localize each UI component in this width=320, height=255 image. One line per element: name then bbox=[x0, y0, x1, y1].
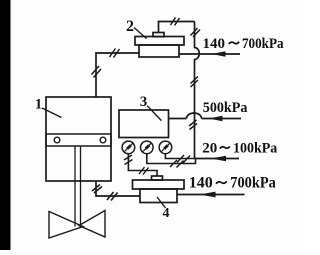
pneumatic hash on G3 line bbox=[177, 155, 190, 163]
wire: right vertical signal line with hop over supply bbox=[195, 22, 200, 159]
label 3 bbox=[140, 94, 162, 121]
label 1 bbox=[35, 97, 62, 118]
wire: gauge G2 line bbox=[147, 154, 196, 164]
svg-text:140: 140 bbox=[189, 175, 213, 192]
transducer 2 bbox=[135, 33, 184, 58]
wire: transducer 2 nozzle output bbox=[159, 22, 195, 33]
svg-text:700kPa: 700kPa bbox=[230, 175, 275, 192]
label 2 bbox=[126, 18, 147, 39]
svg-text:2: 2 bbox=[126, 18, 134, 35]
svg-text:3: 3 bbox=[140, 94, 148, 110]
pneumatic hash on vertical drop bbox=[92, 185, 102, 194]
label 4 bbox=[157, 197, 170, 221]
actuator 1 flange band bbox=[46, 134, 111, 146]
svg-text:140: 140 bbox=[203, 36, 226, 52]
svg-text:1: 1 bbox=[35, 97, 42, 113]
pneumatic hash on bottom horizontal bbox=[107, 192, 118, 201]
flange bolt right bbox=[100, 137, 106, 143]
pneumatic hash on nozzle wire bbox=[171, 18, 180, 26]
label 140~700kPa bottom bbox=[189, 175, 276, 192]
wire: 20~100kPa signal bbox=[196, 158, 240, 160]
valve body bowtie bbox=[49, 211, 105, 239]
label 140~700kPa top bbox=[203, 36, 284, 52]
arrowhead bottom supply bbox=[200, 192, 216, 198]
pneumatic hash on G1 stem bbox=[124, 155, 133, 165]
svg-text:20: 20 bbox=[202, 141, 217, 157]
arrowhead 500kPa bbox=[209, 116, 223, 121]
controller 3 bbox=[119, 110, 169, 138]
pneumatic hash on G1 horizontal bbox=[139, 167, 149, 175]
pneumatic hash on vertical line top bbox=[191, 28, 201, 37]
pressure gauge G2 bbox=[141, 141, 154, 154]
pressure gauge G3 bbox=[159, 141, 172, 154]
pneumatic hash on vertical wire near actuator bbox=[92, 66, 102, 78]
wire: gauge G1 to positioner 4 input bbox=[128, 154, 157, 176]
pneumatic hash on G2 line bbox=[170, 160, 184, 168]
pneumatic hash on vertical line middle bbox=[191, 77, 199, 88]
wire: supply from actuator base to positioner 4 left bbox=[96, 181, 140, 196]
pressure gauge G1 bbox=[122, 141, 135, 154]
pneumatic hash on vertical line below 500kPa bbox=[189, 120, 197, 130]
arrowhead 20~100kPa bbox=[211, 156, 227, 161]
svg-text:700kPa: 700kPa bbox=[242, 36, 284, 52]
pneumatic hash on horizontal wire to transducer 2 bbox=[110, 49, 120, 58]
svg-text:500kPa: 500kPa bbox=[203, 100, 248, 116]
arrowhead top supply bbox=[212, 51, 226, 57]
wire: gauge G3 line bbox=[165, 154, 195, 159]
svg-text:100kPa: 100kPa bbox=[233, 141, 278, 157]
wire: 140~700kPa bottom supply bbox=[177, 194, 245, 196]
flange bolt left bbox=[54, 137, 60, 143]
wire: 140~700kPa top supply bbox=[179, 53, 240, 55]
wire: 500kPa supply line with hop over vertical bbox=[169, 113, 242, 118]
valve stem bbox=[75, 146, 81, 227]
wire: actuator 1 top to transducer 2 bbox=[96, 53, 139, 97]
svg-text:4: 4 bbox=[163, 206, 170, 221]
actuator 1 body bbox=[46, 97, 111, 181]
label 20~100kPa bbox=[202, 141, 278, 157]
positioner 4 bbox=[133, 176, 185, 203]
